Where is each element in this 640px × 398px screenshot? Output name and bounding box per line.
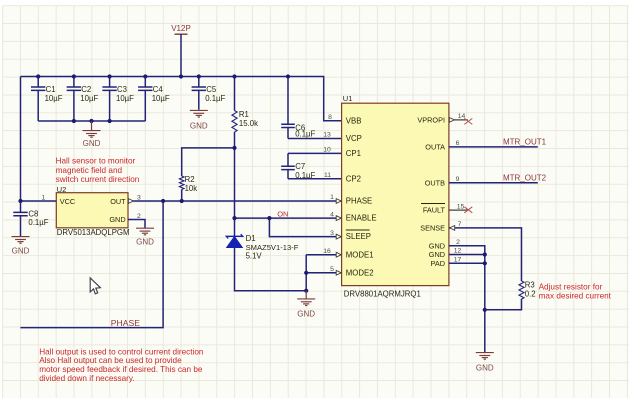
svg-text:CP2: CP2: [346, 174, 361, 183]
pin 15 FAULT stub: [449, 209, 468, 211]
capacitor C7: [281, 153, 315, 180]
svg-text:0.1µF: 0.1µF: [295, 130, 315, 139]
U1 right pin names: [417, 116, 445, 268]
wire PAD pin 17: [449, 262, 485, 264]
svg-text:MODE1: MODE1: [346, 250, 374, 259]
svg-text:10µF: 10µF: [80, 94, 98, 103]
svg-text:13: 13: [323, 132, 331, 139]
svg-text:2: 2: [137, 213, 141, 220]
wire OUTB to MTR_OUT2: [449, 182, 538, 184]
annotation R3 adjust: [539, 282, 612, 300]
svg-text:U1: U1: [343, 94, 353, 103]
wire bus to R1: [234, 77, 236, 111]
wire R2 to OUT net: [181, 190, 183, 202]
junction bus at C2: [72, 74, 76, 78]
svg-text:GND: GND: [12, 246, 30, 255]
svg-text:GND: GND: [83, 139, 101, 148]
svg-text:Adjust resistor for: Adjust resistor for: [539, 282, 603, 291]
svg-text:VCP: VCP: [346, 134, 362, 143]
annotation hall sensor: [56, 157, 140, 184]
svg-text:Hall output is used to control: Hall output is used to control current d…: [39, 347, 204, 356]
svg-text:GND: GND: [190, 122, 208, 131]
svg-text:U2: U2: [57, 185, 67, 194]
svg-text:switch current direction: switch current direction: [56, 175, 140, 184]
svg-text:VCC: VCC: [60, 197, 75, 206]
svg-text:1: 1: [42, 194, 46, 201]
junction R3 return node: [483, 308, 487, 312]
svg-text:GND: GND: [429, 250, 445, 259]
wire MODE2 net: [306, 272, 341, 274]
capacitor C2: [67, 77, 99, 122]
capacitor C8: [13, 201, 48, 236]
svg-text:GND: GND: [429, 241, 445, 250]
svg-text:divided down if necessary.: divided down if necessary.: [39, 374, 134, 383]
svg-text:V12P: V12P: [171, 24, 191, 33]
capacitor C4: [138, 77, 170, 122]
resistor R1 body: [232, 111, 237, 133]
ground MODE/D1: [297, 291, 315, 306]
svg-text:10µF: 10µF: [45, 94, 63, 103]
svg-text:GND: GND: [136, 237, 154, 246]
capacitor C6: [281, 77, 315, 139]
wire SLEEP net: [269, 218, 341, 237]
hall sensor U2 body: [56, 185, 129, 237]
svg-text:DRV5013ADQLPGM: DRV5013ADQLPGM: [57, 228, 130, 237]
svg-text:OUTA: OUTA: [425, 143, 445, 152]
svg-text:C2: C2: [81, 85, 91, 94]
svg-text:12: 12: [454, 248, 462, 255]
svg-text:C3: C3: [117, 85, 127, 94]
svg-text:9: 9: [456, 176, 460, 183]
svg-text:14: 14: [458, 113, 466, 120]
svg-text:1: 1: [330, 194, 334, 201]
svg-text:3: 3: [330, 230, 334, 237]
ground U1 GND: [476, 352, 494, 359]
wire GND pins to ground: [449, 246, 485, 352]
wire MODE drop to GND: [305, 255, 307, 291]
svg-text:10µF: 10µF: [152, 94, 170, 103]
junction PAD node: [483, 261, 487, 265]
no-connect X VPROPI: [464, 118, 472, 124]
svg-text:0.1µF: 0.1µF: [205, 94, 225, 103]
ground C8: [12, 236, 30, 243]
wire R1/R2 tap: [182, 148, 235, 176]
svg-text:6: 6: [456, 140, 460, 147]
svg-text:motor speed feedback if desire: motor speed feedback if desired. This ca…: [39, 365, 203, 374]
svg-text:MTR_OUT1: MTR_OUT1: [503, 138, 547, 147]
junction MODE2 tap: [304, 271, 308, 275]
zener diode D1: [226, 218, 306, 291]
svg-text:0.1µF: 0.1µF: [28, 218, 48, 227]
junction VCC / C8 tap: [18, 199, 22, 203]
U1 left pin input arrows: [336, 199, 341, 276]
resistor R2 body: [179, 176, 184, 190]
svg-text:magnetic field and: magnetic field and: [56, 166, 123, 175]
svg-text:7: 7: [458, 221, 462, 228]
svg-text:GND: GND: [109, 215, 125, 224]
mouse cursor: [90, 278, 100, 294]
svg-text:R1: R1: [239, 110, 249, 119]
junction R1 column at R2 tap: [232, 146, 236, 150]
junction OUT to PHASE drop: [161, 199, 165, 203]
svg-text:11: 11: [324, 172, 331, 179]
junction ENABLE at R1/D1: [232, 216, 236, 220]
ground C5: [190, 110, 208, 117]
junction ENABLE at SLEEP tap: [267, 216, 271, 220]
annotation hall output: [39, 347, 204, 382]
no-connect X FAULT: [464, 207, 472, 213]
junction bus at V12P stub: [179, 74, 183, 78]
svg-text:MODE2: MODE2: [346, 268, 374, 277]
junction bus at C4: [143, 74, 147, 78]
wire V12P bus to U1 VBB: [21, 77, 342, 121]
svg-text:Also Hall output can be used t: Also Hall output can be used to provide: [39, 356, 182, 365]
svg-text:15: 15: [457, 203, 465, 210]
svg-text:C5: C5: [206, 85, 217, 94]
junction OUT at R2: [180, 199, 184, 203]
wire U2 VCC pin 1: [21, 200, 57, 202]
wire C7 top to CP1 pin 10: [288, 152, 342, 154]
svg-text:R2: R2: [185, 175, 195, 184]
svg-text:SLEEP: SLEEP: [346, 232, 371, 241]
wire PHASE net drop: [20, 201, 163, 328]
junction bus at C1: [36, 74, 40, 78]
svg-text:MTR_OUT2: MTR_OUT2: [503, 174, 547, 183]
svg-text:2: 2: [456, 239, 460, 246]
svg-text:SENSE: SENSE: [420, 224, 445, 233]
pin 14 VPROPI stub: [449, 118, 468, 123]
junction MODE/D1 gnd node: [304, 289, 308, 293]
svg-text:C4: C4: [153, 85, 164, 94]
svg-text:5: 5: [330, 266, 334, 273]
svg-text:Hall sensor to monitor: Hall sensor to monitor: [56, 157, 136, 166]
svg-text:C7: C7: [295, 162, 305, 171]
wire left drop to U2 VCC: [20, 77, 22, 202]
wire U2 OUT pin 3 to U1 PHASE pin 1: [128, 200, 342, 202]
ground caps C1-C4: [83, 121, 101, 137]
U1 left pin names: [346, 116, 377, 277]
svg-text:ON: ON: [277, 210, 288, 219]
ground U2: [136, 228, 154, 235]
junction bus at C5: [197, 74, 201, 78]
U2 OUT output arrow: [128, 199, 133, 204]
svg-text:OUT: OUT: [110, 197, 126, 206]
capacitor C5: [192, 77, 226, 110]
wire R1 to ENABLE net: [234, 132, 236, 218]
junction bus at C3: [108, 74, 112, 78]
svg-text:4: 4: [330, 211, 334, 218]
svg-text:16: 16: [323, 248, 331, 255]
wire C7 bottom to CP2 pin 11: [288, 178, 342, 180]
svg-text:D1: D1: [246, 234, 256, 243]
svg-text:max desired current: max desired current: [539, 292, 612, 301]
svg-text:15.0k: 15.0k: [239, 119, 258, 128]
wire R3 to ground net: [485, 299, 522, 310]
svg-text:DRV8801AQRMJRQ1: DRV8801AQRMJRQ1: [344, 289, 421, 298]
svg-text:C1: C1: [46, 85, 56, 94]
svg-text:PHASE: PHASE: [111, 318, 140, 328]
wire C1-C4 bottom bus: [38, 120, 145, 122]
wire MODE1 net: [306, 254, 341, 256]
svg-text:PHASE: PHASE: [346, 197, 372, 206]
junction bus at R1: [232, 74, 236, 78]
U1 left pin numbers: [323, 114, 334, 273]
svg-text:GND: GND: [297, 309, 315, 318]
capacitor C1: [31, 77, 63, 122]
junction cap bus at C3: [108, 119, 112, 123]
svg-text:8: 8: [328, 114, 332, 121]
junction cap bus at GND: [89, 119, 93, 123]
svg-text:GND: GND: [476, 364, 494, 373]
svg-text:R3: R3: [525, 280, 535, 289]
wire OUTA to MTR_OUT1: [449, 146, 538, 148]
wire ENABLE net: [235, 217, 342, 219]
wire SENSE pin 7 to R3: [449, 226, 522, 282]
junction GND12 node: [483, 252, 487, 256]
motor driver U1 body: [342, 94, 449, 298]
svg-text:10µF: 10µF: [116, 94, 134, 103]
junction cap bus at C2: [72, 119, 76, 123]
wire C6 to VCP pin 13: [288, 138, 342, 140]
wire GND pin 12: [449, 254, 485, 256]
resistor R3 body: [519, 281, 524, 299]
wire U2 GND pin 2: [128, 220, 145, 229]
svg-text:10k: 10k: [185, 184, 198, 193]
svg-text:VPROPI: VPROPI: [417, 116, 445, 125]
power port V12P: [171, 24, 191, 77]
svg-text:10: 10: [323, 147, 331, 154]
svg-text:VBB: VBB: [346, 116, 362, 125]
svg-text:17: 17: [454, 257, 462, 264]
junction bus at C6: [286, 74, 290, 78]
svg-text:5.1V: 5.1V: [246, 251, 263, 260]
svg-text:OUTB: OUTB: [425, 178, 445, 187]
svg-text:PAD: PAD: [431, 259, 445, 268]
svg-text:FAULT: FAULT: [423, 206, 446, 215]
capacitor C3: [102, 77, 134, 122]
svg-text:3: 3: [137, 194, 141, 201]
svg-text:CP1: CP1: [346, 149, 361, 158]
svg-text:ENABLE: ENABLE: [346, 214, 377, 223]
svg-text:0.2: 0.2: [525, 290, 536, 299]
